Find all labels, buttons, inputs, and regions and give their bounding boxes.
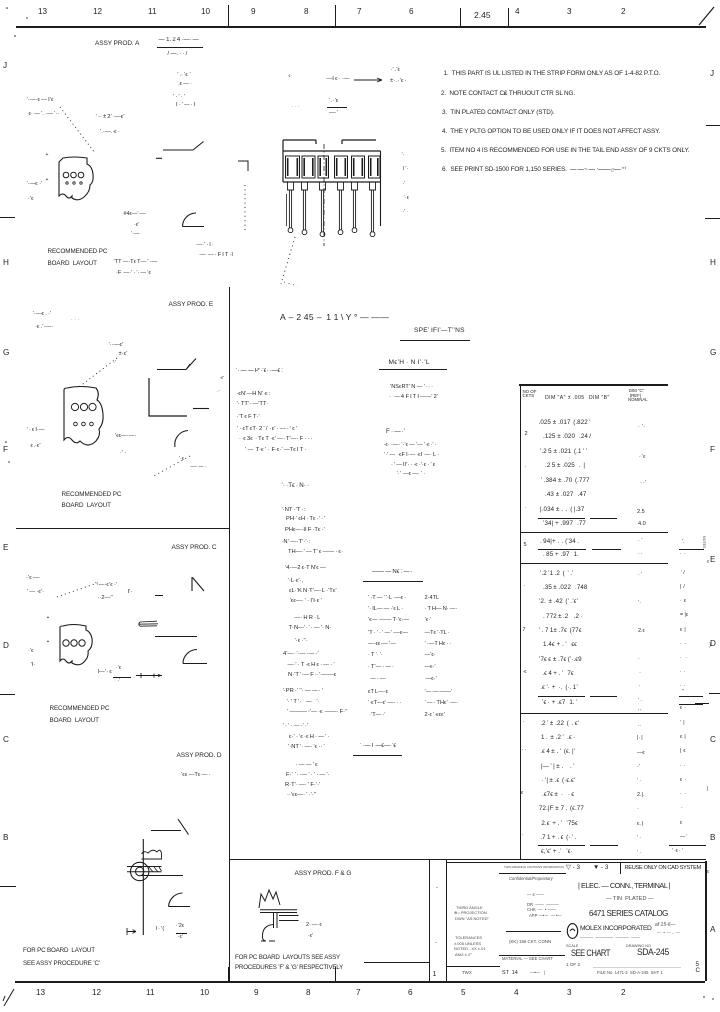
left spec line b bbox=[239, 436, 313, 442]
zone letter right A bbox=[710, 926, 715, 935]
corner mark top-right bbox=[697, 4, 717, 26]
leader dots A1 bbox=[55, 103, 100, 158]
title line4 company bbox=[580, 925, 651, 932]
order table row3 value bbox=[425, 618, 432, 624]
zone letter right F bbox=[710, 446, 715, 455]
t4 aux value 6 bbox=[680, 792, 686, 797]
t2 aux value bottom bbox=[680, 552, 686, 557]
t4 row8 dim bbox=[540, 821, 578, 828]
assy prod A dim fraction bar bbox=[157, 47, 204, 48]
margin tick right b bbox=[705, 218, 720, 219]
tolerance block line2 bbox=[454, 942, 481, 946]
t3 aux underline b bbox=[679, 704, 703, 705]
see chart big bbox=[571, 949, 610, 958]
order table row8 label bbox=[368, 677, 386, 683]
strain relief arc C bbox=[179, 646, 209, 666]
t1 row3 dim bbox=[540, 449, 587, 456]
pcb layout blob A bbox=[54, 152, 98, 208]
for pc board layout line2 bbox=[23, 961, 100, 968]
speckle mid-left bbox=[2, 438, 14, 468]
see note A line1 bbox=[114, 260, 158, 266]
small bracket A bbox=[236, 156, 252, 174]
mid col note line2 bbox=[285, 782, 320, 788]
mid col note line1 bbox=[286, 772, 330, 778]
C frac bar bbox=[113, 677, 131, 678]
mid col finish line2 bbox=[295, 638, 308, 644]
recommended pc C line1 bbox=[50, 706, 110, 713]
t1 row4 dim bbox=[545, 463, 585, 470]
zone letter left H bbox=[3, 259, 9, 268]
t1 fraction underline right bbox=[590, 518, 617, 519]
assy prod F&G label bbox=[295, 871, 352, 878]
t4 fraction underline left bbox=[538, 845, 585, 846]
t2 row1 dim frac top bbox=[540, 539, 579, 546]
t3 ref value 1 bbox=[638, 573, 642, 579]
dwg no label small bbox=[626, 944, 651, 948]
connector right dim stack2 bbox=[403, 167, 408, 172]
zone number top 8 bbox=[304, 8, 309, 17]
t3 row5 dim bbox=[539, 628, 583, 635]
t4 row2 dim bbox=[541, 735, 575, 742]
hole dim line1 bbox=[27, 97, 54, 103]
recommended pc A line2 bbox=[48, 261, 97, 268]
drawing number SDA-245 bbox=[637, 948, 669, 958]
pitch dim typ bbox=[100, 129, 120, 135]
assy prod A leader dim ref bbox=[177, 82, 192, 88]
t1 ref value 4 bbox=[637, 510, 645, 516]
tolerance block line1 bbox=[455, 936, 482, 940]
C blob tick bot bbox=[47, 640, 50, 645]
t1 group label 4 bbox=[525, 506, 527, 512]
table header dim ref bbox=[628, 389, 648, 403]
order table row10 value bbox=[425, 701, 459, 707]
zone number bottom 3 bbox=[567, 989, 572, 998]
note 2 bbox=[441, 91, 575, 98]
order table row2 value bbox=[425, 607, 458, 613]
assy prod A label bbox=[95, 41, 139, 48]
electrical line1 bbox=[384, 443, 437, 449]
t3 row10 dim frac bottom bbox=[542, 700, 578, 707]
t4 group label 9 bbox=[523, 720, 526, 726]
C dim arrow line bbox=[134, 671, 168, 681]
C mid line bbox=[155, 636, 197, 637]
t4 row1 dim bbox=[539, 721, 579, 728]
margin tick right d bbox=[695, 703, 709, 704]
t3 ref value 5 bbox=[638, 671, 641, 677]
scale row text bbox=[509, 940, 551, 945]
title line1 product name bbox=[578, 882, 670, 890]
border bottom tick mid bbox=[335, 967, 336, 981]
t4 aux value 5 bbox=[680, 778, 686, 783]
zone number bottom 7 bbox=[356, 989, 361, 998]
t3 group label 8 bbox=[523, 670, 527, 676]
title block revision strip left edge bbox=[429, 859, 430, 981]
pitch dim .100 bbox=[96, 114, 125, 120]
heading specifications bbox=[414, 328, 465, 335]
mid col rating label bbox=[283, 688, 324, 694]
t1 ref value 2 bbox=[639, 455, 645, 461]
border top line bbox=[16, 26, 706, 28]
table margin ghost digit a bbox=[707, 560, 709, 565]
t4 ref value 2 bbox=[637, 736, 643, 742]
C frac top bbox=[116, 666, 122, 671]
mid col voltage line1 bbox=[289, 734, 329, 740]
connector right dim stack4 bbox=[404, 196, 409, 201]
bracket figure E bbox=[145, 354, 215, 420]
E pitch dim c bbox=[113, 360, 117, 366]
C blob left dim1 bbox=[28, 649, 34, 655]
revision strip mark dot bbox=[435, 940, 437, 946]
C blob tick top bbox=[47, 616, 50, 621]
connector dim arrow bbox=[352, 76, 386, 84]
left spec wire range bbox=[237, 391, 271, 397]
mid col colors label bbox=[288, 578, 304, 584]
t4 ref value 1 bbox=[637, 724, 641, 730]
t4 row4 dim bbox=[541, 764, 575, 771]
cert heading underline bbox=[353, 755, 402, 756]
order table row8 value bbox=[425, 677, 437, 683]
approval app row bbox=[529, 914, 562, 918]
t3 ref value 6 bbox=[638, 684, 640, 690]
t2 row2 dim frac bottom bbox=[543, 552, 580, 559]
t3 ref value 2 bbox=[638, 601, 641, 607]
title line4 script note2 bbox=[657, 931, 680, 936]
t4 aux value 2 bbox=[680, 735, 686, 740]
zone letter left G bbox=[3, 349, 9, 358]
mechanical line2 bbox=[389, 395, 438, 401]
zone letter right E bbox=[710, 556, 715, 565]
pcb layout blob E bbox=[58, 383, 106, 455]
order table row7 value bbox=[425, 665, 436, 671]
t3 ref value 7 bbox=[638, 699, 642, 705]
order table row5 value bbox=[425, 642, 452, 648]
mid col finish label bbox=[295, 615, 321, 621]
connector dim 156 bar bbox=[327, 107, 348, 108]
zone number bottom 6 bbox=[408, 989, 413, 998]
mid col note line3 bbox=[287, 792, 316, 798]
zone number bottom 13 bbox=[36, 989, 45, 998]
zone number bottom 12 bbox=[92, 989, 101, 998]
t3 aux value 2 bbox=[680, 585, 685, 590]
connector dim A label bbox=[327, 76, 350, 82]
molex logo circle bbox=[566, 922, 580, 940]
proprietary note line bbox=[504, 866, 564, 869]
cert heading bbox=[360, 743, 396, 749]
cad note divider tick bbox=[620, 862, 621, 875]
connector front view bbox=[280, 134, 384, 249]
t1 row2 dim bbox=[543, 434, 591, 441]
partial view text1 bbox=[197, 243, 214, 249]
left spec heading comp procedure bbox=[236, 368, 283, 374]
connector dim 156 bot bbox=[329, 110, 338, 116]
proprietary note italic line bbox=[509, 877, 553, 881]
C typ dim text bbox=[98, 670, 112, 676]
crimp figure F&G bbox=[248, 885, 344, 947]
electrical line2 bbox=[384, 453, 439, 459]
mid col contacts line2 bbox=[285, 527, 325, 533]
E bracket dim 2 bbox=[217, 390, 220, 395]
table header dim A bbox=[545, 396, 610, 401]
order table row7 label bbox=[368, 665, 394, 671]
mid col rating line2 bbox=[287, 709, 348, 715]
t1 row5 dim bbox=[541, 478, 590, 485]
zone number top 4 bbox=[515, 8, 520, 17]
screw callout A2 bbox=[134, 223, 140, 229]
order table heading underline bbox=[363, 581, 424, 582]
approval chk row bbox=[527, 908, 556, 912]
t2 fraction underline left bbox=[538, 549, 587, 550]
t3 ref value 3 bbox=[638, 629, 645, 635]
t4 row5 dim bbox=[540, 778, 575, 785]
leader dots E1 bbox=[75, 355, 120, 390]
t3 aux value 1 bbox=[680, 571, 685, 576]
t2 group label 5 bbox=[524, 543, 527, 549]
t3 row6 dim bbox=[543, 642, 577, 649]
t3 row3 dim bbox=[539, 599, 578, 606]
mid col contacts label bbox=[282, 507, 306, 513]
mid col contacts line1 bbox=[286, 516, 325, 522]
C dia dim line2 bbox=[97, 595, 113, 601]
part number template bbox=[280, 313, 389, 322]
bottom fine print line1 bbox=[593, 965, 681, 969]
note 5 bbox=[441, 148, 689, 155]
t1 row1 dim bbox=[539, 420, 591, 427]
t4 ref value 4 bbox=[637, 765, 640, 771]
zone letter right J bbox=[710, 70, 714, 79]
proprietary note underline bbox=[499, 872, 566, 875]
table margin ghost digit c bbox=[707, 787, 709, 793]
recommended pc E line1 bbox=[62, 492, 122, 499]
t3 aux frac bottom bbox=[680, 706, 686, 711]
margin tick left b bbox=[0, 694, 15, 695]
t2 aux value top bbox=[682, 540, 685, 545]
revision strip bottom row divider bbox=[446, 966, 500, 967]
t3 row1 dim bbox=[540, 571, 574, 578]
t1 row8 dim frac bottom bbox=[543, 521, 586, 528]
mid col marking line2 bbox=[288, 672, 336, 678]
see note A line2 bbox=[116, 271, 151, 277]
border bottom line bbox=[15, 981, 705, 983]
cad note REUSE ONLY ON CAD SYSTEM bbox=[625, 865, 701, 871]
hole dim line2 bbox=[29, 111, 60, 117]
t1 ref value 3 bbox=[640, 481, 646, 487]
mid col finish line1 bbox=[289, 625, 332, 631]
t3 row7 dim bbox=[539, 657, 582, 664]
zone number top 10 bbox=[201, 8, 210, 17]
margin tick left c bbox=[0, 886, 16, 887]
F&G dim line1 bbox=[306, 923, 322, 929]
assy prod A leader dim (.156) bbox=[175, 73, 191, 79]
partial view text2 bbox=[200, 253, 233, 259]
t3 group label 6 bbox=[524, 584, 527, 590]
title block top edge bbox=[446, 862, 706, 863]
t4 group label 11 bbox=[521, 791, 524, 797]
speckle top-left bbox=[3, 4, 33, 44]
t3 row4 dim bbox=[543, 614, 583, 621]
t3 aux value 9 bbox=[680, 684, 686, 689]
table divider 1 bbox=[520, 532, 668, 533]
t4 row6 dim bbox=[542, 792, 574, 799]
for pc board layouts F&G line2 bbox=[235, 965, 343, 972]
C short line bbox=[155, 595, 163, 596]
t3 row8 dim bbox=[541, 671, 575, 678]
assy prod A dim frac numerator bbox=[159, 37, 199, 43]
D frac top bbox=[176, 924, 185, 929]
border top tick mid bbox=[335, 5, 336, 27]
order table row4 value bbox=[425, 631, 450, 637]
for pc board layouts F&G line1 bbox=[235, 955, 340, 962]
zone number bottom 4 bbox=[514, 989, 519, 998]
for pc board layout line1 bbox=[23, 948, 95, 955]
D frac bar bbox=[176, 933, 187, 934]
sheet rev letter stack bbox=[696, 962, 700, 975]
t3 fraction underline right bbox=[590, 696, 618, 697]
zone letter left C bbox=[3, 736, 9, 745]
t4 fraction underline right bbox=[590, 845, 618, 846]
zone number bottom 2 bbox=[621, 989, 626, 998]
zone number top 9 bbox=[251, 8, 256, 17]
f&g box partial bottom line bbox=[364, 962, 429, 963]
C dia label bbox=[128, 589, 133, 595]
t4 aux value 8 bbox=[680, 821, 683, 826]
zone number top 12 bbox=[93, 8, 102, 17]
t3 aux value 4 bbox=[680, 613, 688, 618]
divider section E/C bbox=[16, 528, 230, 529]
C frac bottom bbox=[117, 679, 120, 684]
order table row6 label bbox=[368, 653, 383, 659]
E blob left dim1 bbox=[27, 428, 45, 434]
table left border bbox=[520, 384, 521, 859]
connector dim 156 top bbox=[329, 98, 339, 104]
dotted vertical leader A bbox=[241, 183, 251, 235]
mechanical underline bbox=[379, 369, 447, 370]
scale label small bbox=[566, 944, 578, 948]
zone number bottom 8 bbox=[306, 989, 311, 998]
E dots bbox=[71, 318, 80, 323]
zone letter left D bbox=[3, 642, 9, 651]
table divider 3 bbox=[520, 713, 668, 714]
left spec line a bbox=[237, 426, 297, 432]
mid col marking line1 bbox=[288, 662, 335, 668]
order table row5 label bbox=[368, 642, 396, 648]
t3 aux underline a bbox=[679, 696, 703, 697]
t2 ref value 2 bbox=[638, 552, 643, 558]
assy prod A leader dim ref2 bbox=[173, 95, 185, 101]
order table row6 value bbox=[425, 653, 436, 659]
wafer side view C bbox=[135, 618, 161, 630]
screw callout A bbox=[124, 212, 146, 218]
table divider 2 bbox=[520, 563, 668, 564]
t4 aux value 3 bbox=[680, 749, 686, 754]
connector dim value bot bbox=[389, 79, 406, 85]
wire entry step icon A bbox=[155, 138, 207, 161]
order table heading bbox=[372, 569, 413, 575]
margin tick right c bbox=[709, 693, 720, 694]
title line3 series bbox=[589, 910, 668, 918]
address dashes row bbox=[580, 936, 640, 941]
blob A left tick bot bbox=[46, 178, 49, 183]
t3 aux value 3 bbox=[680, 599, 686, 604]
t1 row6 dim bbox=[545, 492, 586, 499]
title block right edge bbox=[705, 861, 706, 982]
zone letter right C bbox=[710, 736, 716, 745]
E bracket dim .05 bbox=[220, 376, 225, 381]
table header no of ckts bbox=[523, 390, 537, 399]
see note 4 label bbox=[181, 772, 211, 778]
t4 group label 10 bbox=[522, 748, 527, 754]
margin tick left a bbox=[0, 217, 15, 218]
electrical line4 bbox=[397, 472, 426, 478]
E pitch dim b bbox=[118, 351, 127, 357]
tolerance block line4 bbox=[455, 953, 472, 957]
t4 ref value 5 bbox=[637, 779, 641, 785]
assy prod A dim frac denominator bbox=[168, 51, 188, 57]
t3 aux value 5 bbox=[680, 628, 686, 633]
speckle bottom-right bbox=[700, 993, 716, 1003]
margin doc number 2.45 bbox=[474, 11, 491, 20]
t3 aux value 7 bbox=[680, 656, 687, 661]
connector right dim stack1 bbox=[402, 153, 405, 158]
t1 group label 2 bbox=[525, 432, 528, 438]
t2 aux underline bbox=[679, 549, 705, 550]
title line4 script note bbox=[655, 923, 676, 928]
recommended pc C line2 bbox=[50, 718, 99, 725]
t3 ref value 4 bbox=[638, 657, 641, 663]
D dim L x bbox=[156, 927, 165, 933]
zone number bottom 5 bbox=[461, 989, 466, 998]
E blob left dim2 bbox=[31, 444, 41, 450]
t3 aux value 10 bbox=[680, 690, 684, 695]
screw figure D bbox=[120, 812, 212, 944]
t4 ref value 3 bbox=[637, 751, 645, 757]
mid col insulator line2 bbox=[285, 565, 326, 571]
mid col insulator line1 bbox=[288, 549, 343, 555]
t3 aux value 6 bbox=[680, 642, 687, 647]
connector bottom leader bbox=[272, 232, 308, 290]
bottom row extra marks bbox=[530, 971, 545, 976]
t1 ref value 1 bbox=[638, 425, 645, 431]
zone number top 3 bbox=[567, 8, 572, 17]
corner mark bottom-left bbox=[2, 988, 16, 1008]
zone number bottom 11 bbox=[146, 989, 155, 998]
t4 aux value 7 bbox=[680, 806, 683, 811]
E pitch dim a bbox=[109, 342, 124, 348]
border top tick left bbox=[228, 5, 229, 27]
zone letter left F bbox=[3, 446, 8, 455]
order table row1 label bbox=[368, 596, 406, 602]
bottom row ST14 bbox=[502, 971, 518, 977]
C hole dim line1 bbox=[26, 575, 41, 581]
title block revision strip right edge bbox=[446, 859, 447, 981]
t4 ref value 7 bbox=[637, 807, 640, 813]
heading electrical bbox=[386, 429, 405, 436]
t2 fraction underline right bbox=[592, 549, 621, 550]
zone letter right D bbox=[710, 640, 716, 649]
t1 row7 dim frac top bbox=[540, 507, 584, 514]
strain relief arc E bbox=[171, 426, 195, 450]
mechanical line1 bbox=[390, 385, 433, 391]
t2 aux side rotated bbox=[705, 536, 717, 540]
specifications underline bbox=[400, 340, 471, 341]
cad triangle rev filled bbox=[593, 865, 608, 872]
t3 ref value 8 bbox=[638, 710, 641, 716]
note 1 bbox=[444, 71, 661, 78]
t3 group label 7 bbox=[523, 628, 526, 634]
F&G dim line2 bbox=[308, 934, 314, 940]
connector dim value top bbox=[390, 68, 400, 74]
connector right dim stack5 bbox=[402, 210, 408, 215]
bottom fine print line2 bbox=[597, 971, 663, 975]
